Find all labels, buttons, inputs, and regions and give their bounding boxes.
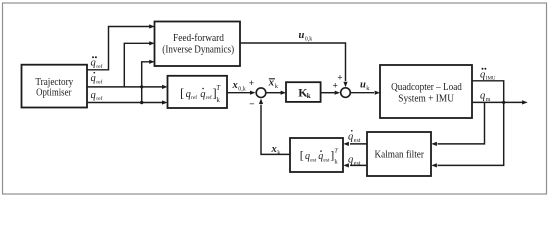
junction dot q ref branch: [140, 101, 143, 104]
wire q ref branch up: [142, 62, 150, 103]
arrowhead into Kk: [281, 91, 287, 95]
arrowhead into sum1: [250, 91, 256, 95]
arrowhead into quadcopter: [375, 91, 381, 95]
svg-text:k: k: [216, 96, 220, 104]
svg-text:x: x: [232, 80, 238, 91]
label uk: [360, 79, 370, 92]
svg-text:est: est: [354, 138, 361, 144]
label q ddot ref: [91, 56, 103, 70]
box Feed-forward: [155, 22, 241, 67]
label qm: [480, 90, 491, 103]
svg-text:System + IMU: System + IMU: [398, 93, 454, 105]
svg-text:−: −: [249, 100, 254, 110]
wire kalman out q est: [350, 164, 367, 166]
label u0k: [299, 30, 313, 43]
wire sum2 to quadcopter: [351, 92, 375, 94]
wire u0k feed-forward to sum2: [240, 43, 346, 81]
svg-text:(Inverse Dynamics): (Inverse Dynamics): [162, 43, 234, 55]
svg-text:0,k: 0,k: [305, 37, 313, 43]
svg-text:q: q: [348, 131, 353, 142]
svg-text:q: q: [480, 90, 485, 101]
arrowhead into est bracket box bottom: [343, 163, 349, 167]
label q dot est: [348, 130, 361, 144]
svg-text:ref: ref: [206, 94, 212, 101]
label q ddot IMU: [480, 68, 496, 82]
wire x0k to sum1: [227, 92, 250, 94]
arrowhead into kalman lower input: [431, 163, 437, 167]
wire qm branch to kalman: [438, 102, 485, 143]
svg-text:m: m: [486, 97, 491, 103]
label x0k: [232, 80, 246, 93]
svg-text:u: u: [299, 30, 305, 41]
arrowhead output right: [522, 100, 528, 104]
crossing blob qm line: [502, 101, 505, 104]
svg-text:u: u: [360, 79, 366, 90]
svg-text:Optimiser: Optimiser: [36, 86, 72, 98]
wire Kk to sum2: [321, 92, 335, 94]
svg-text:ref: ref: [96, 63, 102, 70]
label q ref: [91, 90, 103, 102]
svg-text:est: est: [323, 157, 330, 163]
svg-text:ref: ref: [96, 78, 102, 85]
arrowhead into feed-forward input 3: [149, 60, 155, 64]
svg-text:IMU: IMU: [486, 77, 496, 82]
svg-text:Feed-forward: Feed-forward: [173, 32, 224, 44]
wire sum1 to Kk: [266, 92, 281, 94]
wire q ref: [87, 102, 163, 104]
svg-text:0,k: 0,k: [238, 87, 246, 93]
svg-text:ref: ref: [191, 94, 197, 101]
svg-text:q: q: [348, 155, 353, 166]
wire q ddot IMU feedback: [438, 81, 504, 166]
arrowhead into feed-forward input 2: [149, 41, 155, 45]
label xbar k: [268, 77, 279, 90]
box Trajectory Optimiser: [22, 65, 88, 108]
wire q dot ref branch up: [124, 43, 149, 87]
svg-text:T: T: [334, 147, 338, 154]
label xk: [271, 144, 282, 157]
arrowhead into kalman upper input: [431, 142, 437, 146]
svg-text:q: q: [91, 90, 96, 101]
svg-text:+: +: [337, 74, 342, 84]
wire q dot ref: [87, 86, 163, 88]
box Kk gain: [286, 82, 321, 102]
svg-text:+: +: [249, 79, 254, 89]
arrowhead into bracket box input 2: [162, 100, 168, 104]
svg-text:Kalman filter: Kalman filter: [374, 149, 424, 161]
svg-text:est: est: [354, 161, 361, 167]
label q est: [348, 155, 361, 168]
svg-text:[: [: [180, 85, 184, 100]
svg-text:x: x: [271, 144, 277, 155]
arrowhead down into sum2: [343, 82, 347, 88]
svg-text:Quadcopter – Load: Quadcopter – Load: [391, 81, 462, 93]
svg-text:q: q: [480, 69, 485, 80]
sum circle 1: [256, 88, 266, 98]
wire q ddot ref: [87, 27, 150, 70]
svg-text:q: q: [91, 58, 96, 69]
wire xk feedback to sum1: [261, 105, 290, 155]
svg-text:k: k: [307, 92, 311, 100]
arrowhead into sum2: [335, 91, 341, 95]
label q dot ref: [91, 72, 103, 85]
wire kalman out qdot est: [350, 143, 367, 145]
svg-text:q: q: [91, 73, 96, 84]
sum circle 2: [341, 88, 351, 98]
crossing blob: [140, 85, 143, 88]
wire qm output: [472, 101, 523, 103]
arrowhead into feed-forward input 1: [149, 24, 155, 28]
arrowhead into bracket box input 1: [162, 85, 168, 89]
box Kalman filter: [367, 132, 431, 176]
box Quadcopter Load System IMU: [380, 65, 472, 118]
box qref state vector: [168, 76, 228, 108]
svg-text:ref: ref: [96, 95, 102, 102]
arrowhead into est bracket box top: [343, 142, 349, 146]
box qest state vector: [290, 138, 343, 172]
arrowhead up into sum1: [259, 98, 263, 104]
svg-text:+: +: [332, 82, 337, 92]
svg-text:est: est: [310, 157, 317, 163]
border frame: [3, 3, 547, 194]
svg-text:[: [: [300, 148, 304, 162]
